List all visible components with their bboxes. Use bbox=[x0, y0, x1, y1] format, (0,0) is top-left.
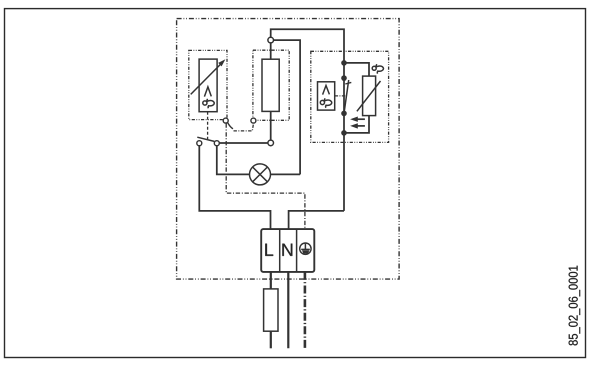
wire fuse down bbox=[270, 331, 272, 348]
junction dot bottom bbox=[341, 130, 347, 136]
thermostat module enclosure (left dash-dot-dot box) bbox=[189, 50, 227, 119]
wire element top lead bbox=[270, 43, 272, 59]
connector circle left (on thermostat box corner) bbox=[223, 118, 228, 123]
wire lamp right lead bbox=[271, 173, 301, 175]
thermistor diagonal line bbox=[357, 81, 381, 111]
safety thermostat box (right) bbox=[318, 82, 335, 110]
junction dot switch upper bbox=[341, 75, 347, 81]
wire terminal L down to fuse bbox=[270, 272, 272, 289]
terminal label N bbox=[282, 244, 292, 256]
mechanical link safety thermostat to blade (dash-dot) bbox=[335, 95, 347, 97]
fuse body bbox=[264, 289, 278, 331]
junction dot top bbox=[341, 60, 347, 66]
actuation arrow lower bbox=[350, 123, 365, 128]
thermostat symbol caret (left) bbox=[204, 87, 211, 97]
terminal divider L/N bbox=[279, 229, 281, 272]
wire element bottom lead bbox=[270, 111, 272, 140]
indicator lamp bbox=[250, 164, 271, 185]
wire top node right then down to lamp right side bbox=[274, 40, 301, 174]
wire terminal N down bbox=[287, 272, 289, 348]
connector circle right (on element box corner) bbox=[251, 118, 256, 123]
actuation arrow upper bbox=[350, 117, 365, 122]
earth symbol in terminal bbox=[300, 243, 311, 254]
thermistor theta label bbox=[372, 64, 383, 73]
protective earth dash-dot path to terminal bbox=[226, 123, 305, 229]
node bottom terminal circle bbox=[268, 140, 274, 146]
wire thermistor bottom return bbox=[344, 116, 369, 133]
wire top node up and right to fan unit bbox=[271, 29, 344, 63]
thermostat symbol theta (left) bbox=[203, 99, 214, 108]
wire lamp left lead up to switch bbox=[217, 146, 250, 175]
adjustment arrow through thermostat bbox=[191, 59, 226, 94]
drawing number label 85_02_06_0001 bbox=[569, 266, 581, 346]
node top terminal circle bbox=[268, 37, 274, 43]
plug link dash-dot between connectors bbox=[234, 125, 254, 131]
main switch right contact circle bbox=[214, 141, 219, 146]
wire terminal PE down (dash-dot bold) bbox=[304, 272, 307, 348]
terminal divider N/PE bbox=[296, 229, 298, 272]
appliance enclosure boundary (outer dash-dot-dot box) bbox=[177, 19, 400, 280]
safety switch fixed contact tick bbox=[345, 82, 351, 84]
fan/limiter module enclosure (right dash-dot-dot box) bbox=[311, 51, 389, 142]
safety switch blade bbox=[344, 80, 349, 113]
wire main line through right box bbox=[343, 63, 345, 211]
heating element body (rectangle) bbox=[262, 59, 279, 111]
plug hook arc at left connector bbox=[228, 123, 233, 129]
safety thermostat theta bbox=[320, 98, 331, 107]
heating element enclosure (middle dash-dot-dot box) bbox=[253, 50, 289, 120]
terminal label L bbox=[265, 244, 273, 256]
main switch blade bbox=[197, 137, 214, 141]
wire to thermistor top bbox=[344, 63, 369, 76]
safety thermostat caret bbox=[323, 86, 330, 95]
main switch left contact circle bbox=[197, 141, 202, 146]
terminal block outline bbox=[261, 229, 314, 272]
mechanical link thermostat to switch (dashed) bbox=[207, 112, 209, 139]
wire main line down to terminal N bbox=[289, 211, 344, 229]
thermistor body (rectangle) bbox=[363, 76, 376, 116]
wire left contact down and right to terminal L bbox=[199, 146, 270, 229]
wire switch right contact to bottom node bbox=[220, 142, 268, 144]
junction dot switch lower bbox=[341, 111, 347, 117]
adjustable thermostat body (rectangle) bbox=[199, 59, 217, 112]
